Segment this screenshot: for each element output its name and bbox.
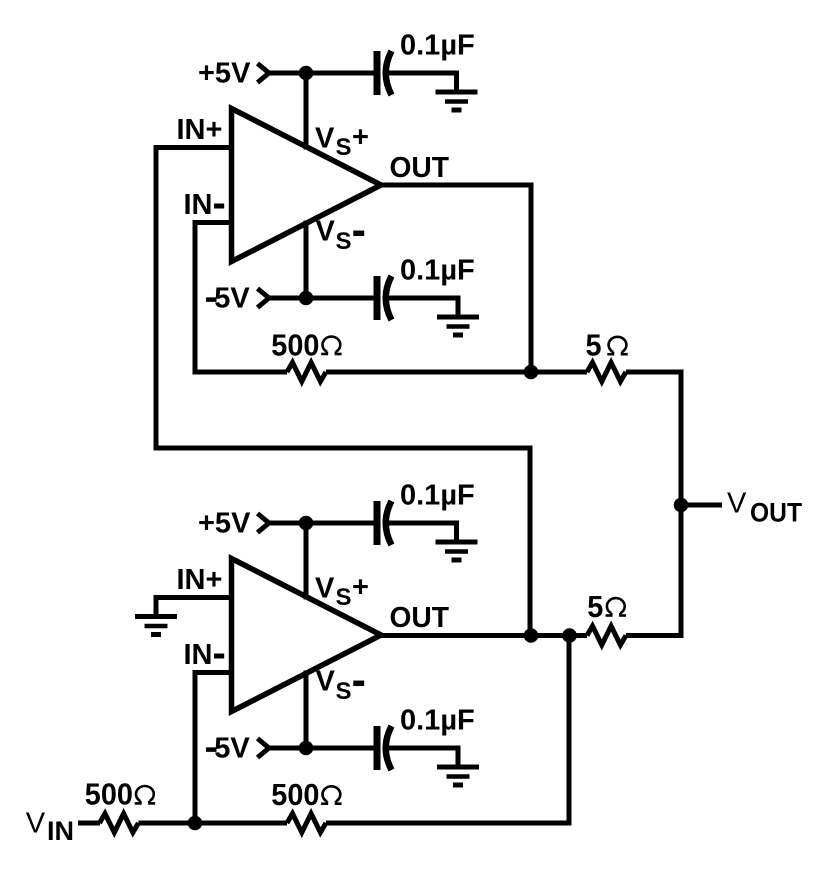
node input summing junction bbox=[188, 816, 202, 830]
wire +5V rail (op-amp 2) bbox=[268, 521, 374, 526]
svg-text:OUT: OUT bbox=[390, 152, 450, 184]
svg-text:V: V bbox=[727, 488, 747, 520]
capacitor C2 0.1uF bbox=[377, 276, 392, 320]
node +5V junction (op-amp 1) bbox=[299, 66, 313, 80]
svg-text:V: V bbox=[316, 666, 336, 698]
label R4 value 5 ohm bbox=[587, 590, 626, 624]
label R1 value 500 ohm bbox=[271, 328, 341, 362]
svg-text:IN: IN bbox=[184, 189, 213, 221]
label VS+ (op-amp 2) bbox=[315, 572, 369, 611]
wire R3 to VOUT node bbox=[626, 372, 681, 505]
wire -5V rail (op-amp 1) bbox=[268, 296, 374, 301]
capacitor C3 0.1uF bbox=[377, 501, 392, 545]
svg-text:0.1µF: 0.1µF bbox=[400, 29, 475, 61]
label VS+ (op-amp 1) bbox=[315, 122, 369, 161]
label VIN bbox=[26, 808, 74, 847]
svg-text:+5V: +5V bbox=[198, 58, 251, 90]
resistor R3 5 ohm (op-amp1 output) bbox=[587, 363, 626, 382]
label -5V (op-amp 1) bbox=[206, 283, 250, 315]
label VOUT bbox=[727, 488, 802, 528]
wire R2 to op-amp2 output node bbox=[326, 633, 569, 823]
svg-text:S: S bbox=[336, 678, 352, 705]
svg-text:0.1µF: 0.1µF bbox=[400, 479, 475, 511]
wire -5V rail (op-amp 2) bbox=[268, 746, 374, 751]
wire C2 to ground bbox=[389, 298, 458, 315]
svg-text:S: S bbox=[336, 584, 352, 611]
label R5 value 500 ohm bbox=[85, 778, 155, 812]
resistor R2 500 ohm (op-amp2 feedback) bbox=[287, 814, 326, 833]
wire op-amp2 IN- down to input node bbox=[195, 673, 234, 826]
svg-text:500: 500 bbox=[271, 328, 319, 362]
label VS- (op-amp 1) bbox=[316, 216, 365, 256]
power chevron +5V (op-amp 1) bbox=[258, 64, 270, 83]
wire C4 to ground bbox=[389, 748, 458, 765]
wire feedback node to R3 bbox=[531, 370, 587, 375]
wire VOUT node down to R4 bbox=[626, 505, 681, 636]
svg-text:5: 5 bbox=[587, 590, 603, 624]
wire op-amp1 IN+ route from op-amp2 output node bbox=[156, 148, 530, 636]
wire input node segment bbox=[138, 821, 287, 826]
label -5V (op-amp 2) bbox=[206, 733, 250, 765]
label IN- (op-amp 2) bbox=[184, 639, 225, 671]
wire R4 to VOUT node bbox=[626, 633, 681, 638]
node -5V junction (op-amp 2) bbox=[299, 741, 313, 755]
svg-text:S: S bbox=[336, 228, 352, 255]
label VS- (op-amp 2) bbox=[316, 666, 365, 706]
svg-text:V: V bbox=[26, 808, 46, 840]
svg-text:OUT: OUT bbox=[750, 498, 802, 528]
ground G2 (C2) bbox=[437, 298, 479, 335]
node -5V junction (op-amp 1) bbox=[299, 291, 313, 305]
svg-text:OUT: OUT bbox=[390, 602, 450, 634]
svg-text:S: S bbox=[336, 134, 352, 161]
wire VS+ stub (op-amp 2) bbox=[304, 523, 309, 600]
wire VOUT stub bbox=[681, 503, 722, 508]
svg-text:+: + bbox=[352, 122, 369, 154]
ground G3 (C3) bbox=[436, 523, 478, 560]
wire feedback left segment (op-amp1) bbox=[193, 370, 288, 375]
op-amp U2 bbox=[232, 559, 382, 712]
node feedback/output junction (op-amp1) bbox=[524, 365, 538, 379]
resistor R1 500 ohm (op-amp1 feedback) bbox=[287, 363, 326, 382]
svg-text:0.1µF: 0.1µF bbox=[400, 704, 475, 736]
svg-text:0.1µF: 0.1µF bbox=[400, 254, 475, 286]
label R2 value 500 ohm bbox=[271, 778, 341, 812]
wire op-amp1 IN- to feedback node bbox=[195, 223, 234, 375]
wire +5V rail (op-amp 1) bbox=[268, 71, 374, 76]
svg-text:500: 500 bbox=[271, 778, 319, 812]
wire op-amp1 output down to feedback node bbox=[379, 185, 531, 375]
svg-text:V: V bbox=[315, 123, 335, 155]
svg-text:IN: IN bbox=[47, 816, 74, 846]
capacitor C4 0.1uF bbox=[377, 726, 392, 770]
wire op-amp2 IN+ to ground bbox=[156, 598, 234, 601]
power chevron -5V (op-amp 1) bbox=[258, 289, 270, 308]
label R3 value 5 ohm bbox=[586, 329, 628, 363]
svg-text:IN+: IN+ bbox=[177, 564, 223, 596]
ground G5 (op-amp2 IN+) bbox=[135, 598, 177, 635]
svg-text:IN: IN bbox=[184, 639, 213, 671]
wire op-amp2 output to R4 bbox=[379, 633, 587, 638]
ground G4 (C4) bbox=[437, 748, 479, 785]
svg-text:IN+: IN+ bbox=[177, 114, 223, 146]
wire C1 to ground bbox=[389, 73, 457, 90]
svg-text:5V: 5V bbox=[214, 733, 250, 765]
power chevron +5V (op-amp 2) bbox=[258, 514, 270, 533]
op-amp U1 bbox=[232, 109, 382, 262]
ground G1 (C1) bbox=[436, 73, 478, 110]
resistor R5 500 ohm (input) bbox=[100, 814, 139, 833]
svg-text:500: 500 bbox=[85, 778, 133, 812]
svg-text:V: V bbox=[316, 216, 336, 248]
svg-text:5V: 5V bbox=[214, 283, 250, 315]
svg-text:V: V bbox=[315, 573, 335, 605]
node +5V junction (op-amp 2) bbox=[299, 516, 313, 530]
node op-amp2 output / op-amp1 IN+ junction bbox=[524, 629, 538, 643]
svg-text:+: + bbox=[352, 572, 369, 604]
wire VS- stub (op-amp 2) bbox=[304, 671, 309, 749]
wire C3 to ground bbox=[389, 523, 457, 540]
label IN- (op-amp 1) bbox=[184, 189, 225, 221]
wire VS- stub (op-amp 1) bbox=[304, 221, 309, 299]
wire R1 to feedback node bbox=[326, 370, 534, 375]
capacitor C1 0.1uF bbox=[377, 51, 392, 95]
resistor R4 5 ohm (op-amp2 output) bbox=[587, 626, 626, 645]
svg-text:5: 5 bbox=[586, 329, 602, 363]
svg-text:+5V: +5V bbox=[198, 508, 251, 540]
wire VIN stub bbox=[78, 821, 100, 826]
wire VS+ stub (op-amp 1) bbox=[304, 73, 309, 150]
node VOUT junction bbox=[674, 498, 688, 512]
power chevron -5V (op-amp 2) bbox=[258, 739, 270, 758]
node op-amp2 output / feedback junction bbox=[563, 629, 577, 643]
